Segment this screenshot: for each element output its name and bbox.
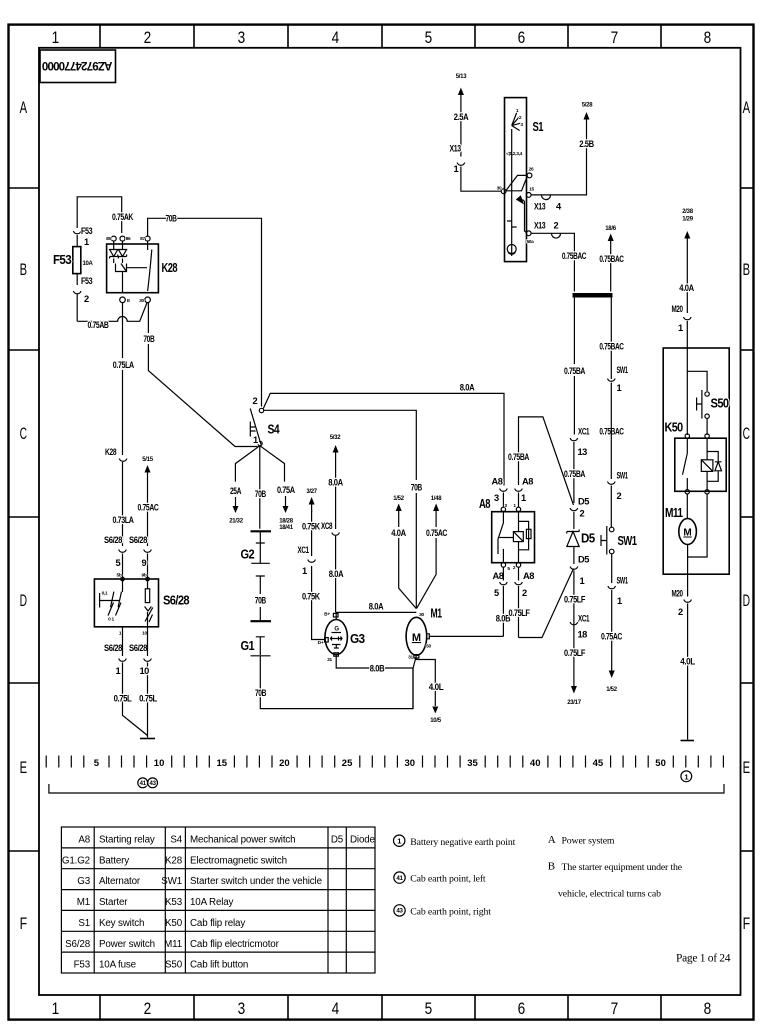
S1 pin 26 [527, 173, 532, 178]
svg-text:1: 1 [52, 28, 59, 47]
connector F53 pin2 arc [73, 274, 81, 322]
svg-text:0.75LF: 0.75LF [564, 595, 586, 605]
wire branch to S50 [687, 371, 707, 391]
K28 zener diode 2 [118, 241, 126, 259]
ground point 1 circle [681, 771, 692, 782]
svg-text:85: 85 [106, 236, 111, 242]
svg-text:Cab lift button: Cab lift button [190, 960, 248, 971]
svg-text:X13: X13 [534, 221, 545, 231]
svg-text:1: 1 [116, 666, 121, 676]
A8 bottom pins [501, 563, 505, 567]
power switch S6/28 box [94, 579, 158, 627]
svg-text:D5: D5 [578, 555, 589, 565]
svg-text:70B: 70B [165, 214, 177, 224]
svg-text:Diode: Diode [350, 835, 376, 846]
wire 8.0A G3 to M1 [336, 612, 416, 619]
svg-text:2: 2 [253, 396, 258, 406]
svg-text:31: 31 [327, 657, 332, 663]
svg-text:SW1: SW1 [617, 365, 628, 375]
svg-text:1: 1 [253, 435, 258, 445]
wire 70B from K28 pin30 down [148, 303, 257, 447]
svg-text:K53: K53 [165, 897, 183, 908]
svg-text:10/5: 10/5 [430, 718, 441, 724]
svg-text:2: 2 [617, 491, 622, 501]
svg-text:7: 7 [611, 999, 618, 1018]
svg-text:1/29: 1/29 [682, 217, 693, 223]
A8 coil bracket resistor [519, 521, 529, 549]
svg-text:0.75AC: 0.75AC [601, 632, 623, 642]
S4 V split to battery and arrows [235, 446, 284, 529]
K28 zener diode 1 [110, 241, 118, 259]
wire 4.0L to 10/5 [416, 659, 435, 707]
svg-text:0.75LF: 0.75LF [564, 648, 586, 658]
svg-text:4: 4 [332, 28, 339, 47]
svg-text:21/32: 21/32 [229, 519, 243, 525]
svg-text:A8: A8 [479, 497, 491, 511]
svg-text:5: 5 [494, 588, 499, 598]
top band cell dividers [100, 25, 661, 48]
svg-text:XC8: XC8 [321, 521, 332, 531]
S4 pin 1 [258, 441, 262, 445]
K28 coil [114, 259, 127, 293]
wire 0.75BA A8 pin1 up and to D5 [519, 417, 574, 505]
svg-text:vehicle, electrical turns cab: vehicle, electrical turns cab [558, 889, 661, 900]
fuse F53 [73, 247, 81, 274]
svg-text:50: 50 [426, 644, 431, 650]
svg-text:9: 9 [142, 558, 147, 568]
svg-text:2: 2 [84, 294, 89, 304]
svg-text:S6/28: S6/28 [129, 535, 147, 545]
S1 contact bridge [506, 175, 527, 190]
wire 70B from K28 pin87 to S4 [148, 218, 262, 406]
svg-text:8.0A: 8.0A [329, 569, 344, 579]
svg-text:F53: F53 [81, 226, 92, 236]
wire 0.75AB with hop [77, 303, 147, 321]
svg-text:C: C [743, 424, 750, 443]
svg-text:0,1: 0,1 [102, 591, 108, 597]
svg-text:50a: 50a [526, 239, 534, 245]
ruler ticks [46, 756, 723, 768]
S1 pin 30 [501, 189, 506, 194]
svg-text:18/6: 18/6 [605, 226, 616, 232]
wire 8.0B G3 to M1 bottom [336, 655, 413, 669]
svg-text:40: 40 [530, 758, 541, 769]
wire A8 pin2 to D5 pin1 [519, 569, 574, 638]
svg-text:70B: 70B [255, 688, 267, 698]
svg-text:23/17: 23/17 [567, 700, 581, 706]
svg-text:M20: M20 [672, 304, 683, 314]
svg-text:X13: X13 [450, 144, 461, 154]
svg-text:45: 45 [593, 758, 604, 769]
svg-text:◁1,2,3,4: ◁1,2,3,4 [505, 151, 523, 157]
K28 contact blade [148, 241, 152, 291]
M1 pin 50 [427, 634, 430, 639]
svg-text:31: 31 [408, 655, 413, 661]
svg-text:8: 8 [704, 28, 711, 47]
svg-text:S1: S1 [78, 918, 90, 929]
svg-text:0.75AK: 0.75AK [112, 212, 134, 222]
relay A8 box [492, 512, 535, 563]
svg-text:0.75AC: 0.75AC [138, 503, 160, 513]
A8 coil [518, 512, 520, 563]
thick bus bar [573, 293, 613, 298]
pin 87 [145, 236, 150, 241]
svg-text:0.75AB: 0.75AB [88, 320, 110, 330]
S4 pin 2 [259, 408, 263, 412]
svg-text:4.0L: 4.0L [680, 657, 695, 667]
svg-text:3: 3 [238, 28, 245, 47]
svg-text:SW1: SW1 [618, 534, 638, 548]
S1 wiper arrow to 50a [516, 195, 524, 204]
svg-text:Battery negative earth point: Battery negative earth point [410, 837, 515, 848]
svg-text:X13: X13 [534, 202, 545, 212]
svg-text:50: 50 [655, 758, 666, 769]
svg-text:F53: F53 [81, 276, 92, 286]
svg-text:2: 2 [144, 999, 151, 1018]
svg-text:1: 1 [580, 576, 585, 586]
pin 86 [120, 236, 125, 241]
svg-text:10: 10 [154, 758, 165, 769]
svg-text:0.75LA: 0.75LA [113, 360, 135, 370]
svg-text:3/27: 3/27 [306, 489, 317, 495]
svg-text:0.75A: 0.75A [277, 485, 295, 495]
svg-text:SW1: SW1 [617, 471, 628, 481]
svg-text:B: B [548, 861, 555, 873]
svg-text:15: 15 [529, 187, 534, 193]
svg-text:The starter equipment under th: The starter equipment under the [562, 862, 683, 873]
left band row dividers [9, 188, 40, 851]
svg-text:M1: M1 [431, 607, 443, 621]
svg-text:6: 6 [518, 999, 525, 1018]
S1 rotary fan [512, 110, 521, 131]
svg-text:0.75BA: 0.75BA [564, 366, 586, 376]
svg-text:1/52: 1/52 [606, 687, 617, 693]
svg-text:3: 3 [494, 493, 499, 503]
svg-text:S1: S1 [533, 120, 544, 134]
svg-text:8.0B: 8.0B [370, 664, 385, 674]
svg-text:4.0A: 4.0A [679, 283, 694, 293]
svg-text:D: D [20, 591, 27, 610]
svg-text:5: 5 [116, 558, 121, 568]
svg-text:F53: F53 [74, 960, 91, 971]
svg-text:1: 1 [84, 237, 89, 247]
svg-text:E: E [743, 758, 750, 777]
svg-text:Starting relay: Starting relay [99, 835, 155, 846]
svg-text:1: 1 [52, 999, 59, 1018]
svg-text:K28: K28 [162, 261, 178, 275]
svg-text:S6/28: S6/28 [65, 939, 91, 950]
diode D5 [567, 530, 579, 565]
S1 pin 15 [526, 193, 531, 198]
svg-text:13: 13 [578, 447, 588, 457]
svg-text:70B: 70B [143, 334, 155, 344]
wire S1 pin50a to 0.75BAC [531, 233, 574, 291]
svg-text:1: 1 [397, 837, 401, 846]
svg-text:M11: M11 [665, 506, 683, 520]
svg-text:2: 2 [580, 509, 585, 519]
svg-text:XC1: XC1 [578, 427, 589, 437]
wire M1 50 to A8 pin5 [429, 635, 503, 637]
svg-text:10A: 10A [82, 261, 93, 267]
svg-text:0.75BAC: 0.75BAC [599, 342, 624, 352]
bottom band numbers 1-8 [52, 999, 711, 1018]
svg-text:18/28: 18/28 [279, 519, 293, 525]
connector F53 pin1 arc [73, 231, 81, 234]
svg-text:70B: 70B [255, 596, 267, 606]
relay K50 inner box [675, 438, 726, 491]
K50 bottom pins [685, 490, 689, 494]
wire S1 pin15 to 2.5B [531, 119, 586, 195]
svg-text:AZ9724770000: AZ9724770000 [42, 59, 112, 71]
svg-text:5/15: 5/15 [142, 457, 153, 463]
svg-text:Alternator: Alternator [99, 876, 141, 887]
ground terminal bar left [140, 738, 155, 740]
svg-text:XC1: XC1 [298, 545, 309, 555]
svg-text:G1.G2: G1.G2 [62, 855, 90, 866]
note 1 battery negative earth point [394, 835, 405, 846]
svg-text:M: M [412, 632, 421, 644]
svg-text:A8: A8 [492, 477, 503, 487]
svg-text:2: 2 [144, 28, 151, 47]
svg-text:43: 43 [150, 781, 157, 787]
svg-text:G3: G3 [350, 632, 365, 646]
svg-text:30: 30 [419, 612, 424, 618]
K50 coil [706, 438, 708, 489]
svg-text:5: 5 [425, 28, 432, 47]
svg-text:20: 20 [279, 758, 290, 769]
svg-text:Power switch: Power switch [99, 939, 155, 950]
wire F53 top loop [77, 197, 122, 247]
svg-text:F: F [20, 914, 27, 933]
svg-text:Electromagnetic switch: Electromagnetic switch [190, 855, 287, 866]
svg-text:1: 1 [302, 566, 307, 576]
ground point 43 circle [148, 778, 158, 788]
svg-text:1/52: 1/52 [393, 496, 404, 502]
svg-text:S50: S50 [165, 960, 183, 971]
svg-text:7: 7 [611, 28, 618, 47]
svg-text:8.0A: 8.0A [460, 383, 475, 393]
svg-text:0.73LA: 0.73LA [113, 515, 135, 525]
arrow down 23/17 [573, 666, 575, 687]
svg-text:5b: 5b [117, 573, 122, 579]
svg-text:1: 1 [521, 493, 526, 503]
svg-text:G1: G1 [241, 639, 255, 653]
switch SW1 under vehicle [609, 527, 614, 532]
svg-text:6: 6 [518, 28, 525, 47]
svg-text:0.75K: 0.75K [302, 522, 320, 532]
wire 0.75BA down from bar [573, 298, 575, 435]
svg-text:Page 1 of 24: Page 1 of 24 [676, 953, 731, 965]
relay K28 box [107, 244, 159, 293]
svg-text:43: 43 [396, 908, 403, 915]
svg-text:M: M [683, 528, 691, 539]
note 43 cab earth point right [394, 905, 405, 916]
svg-text:Starter switch under the vehic: Starter switch under the vehicle [190, 876, 323, 887]
svg-text:8.0A: 8.0A [328, 478, 343, 488]
svg-text:A8: A8 [523, 571, 534, 581]
wire X13-1 to S1 pin30 [457, 95, 501, 192]
svg-text:87: 87 [140, 236, 145, 242]
svg-text:Cab earth point, left: Cab earth point, left [410, 874, 486, 885]
svg-text:41: 41 [396, 875, 403, 882]
svg-text:10A fuse: 10A fuse [99, 960, 137, 971]
svg-text:SW1: SW1 [617, 576, 628, 586]
svg-text:1: 1 [684, 772, 688, 781]
svg-text:Battery: Battery [99, 855, 129, 866]
svg-text:8.0A: 8.0A [369, 602, 384, 612]
bottom band cell dividers [100, 995, 661, 1020]
svg-text:G2: G2 [241, 548, 255, 562]
svg-text:5: 5 [425, 999, 432, 1018]
S1 antenna symbol [507, 245, 516, 254]
svg-text:Cab flip relay: Cab flip relay [190, 918, 245, 929]
svg-text:3: 3 [238, 999, 245, 1018]
svg-text:25A: 25A [230, 486, 242, 496]
K50 contact blade [683, 438, 688, 489]
right band row dividers [741, 188, 754, 851]
S6/28 heater symbol [147, 579, 149, 589]
svg-text:E: E [20, 758, 27, 777]
svg-text:Key switch: Key switch [99, 918, 144, 929]
svg-text:10: 10 [142, 631, 147, 637]
svg-text:25: 25 [342, 758, 353, 769]
svg-text:10: 10 [140, 666, 150, 676]
svg-text:0.75AC: 0.75AC [426, 528, 448, 538]
svg-text:S4: S4 [170, 835, 182, 846]
svg-text:A: A [20, 98, 28, 117]
svg-text:18: 18 [578, 630, 588, 640]
svg-text:1: 1 [678, 323, 683, 333]
svg-text:B: B [20, 260, 27, 279]
svg-text:Mechanical power switch: Mechanical power switch [190, 835, 295, 846]
svg-text:2/38: 2/38 [682, 209, 693, 215]
A8 contact blade [498, 512, 503, 554]
svg-text:A8: A8 [78, 835, 90, 846]
wire from S4 pin2 to M1 (70B) [264, 410, 417, 608]
svg-text:S50: S50 [711, 397, 730, 411]
svg-text:30: 30 [139, 298, 144, 304]
S1 inner stem [511, 129, 513, 219]
svg-text:A8: A8 [522, 477, 533, 487]
svg-text:1/48: 1/48 [431, 496, 442, 502]
ground point 41 circle [138, 778, 148, 788]
ruler numbers [94, 758, 666, 769]
svg-text:5/32: 5/32 [330, 435, 341, 441]
right band letters A-F [743, 98, 751, 933]
svg-text:0.75BA: 0.75BA [564, 469, 586, 479]
svg-text:K50: K50 [665, 421, 684, 435]
svg-text:D5: D5 [578, 497, 589, 507]
svg-text:1: 1 [617, 596, 622, 606]
S1 pin 50a [526, 231, 531, 236]
svg-text:D5: D5 [581, 532, 595, 546]
K50 diode [707, 452, 718, 482]
svg-text:B: B [743, 260, 750, 279]
pin E bottom [120, 297, 126, 303]
svg-text:F: F [743, 914, 750, 933]
svg-text:5/13: 5/13 [456, 74, 467, 80]
svg-text:8: 8 [704, 999, 711, 1018]
svg-text:XC1: XC1 [578, 614, 589, 624]
svg-text:0 1: 0 1 [108, 617, 114, 623]
svg-text:26: 26 [529, 167, 534, 173]
svg-text:70B: 70B [411, 483, 423, 493]
svg-text:Starter: Starter [99, 897, 128, 908]
alternator G3 [325, 620, 347, 655]
svg-text:1: 1 [454, 164, 459, 174]
svg-text:30: 30 [405, 758, 416, 769]
svg-text:4: 4 [332, 999, 339, 1018]
svg-text:K28: K28 [165, 855, 183, 866]
svg-text:A: A [743, 98, 751, 117]
svg-text:1: 1 [617, 383, 622, 393]
svg-text:Cab earth point, right: Cab earth point, right [410, 907, 491, 918]
pin 85 [111, 236, 116, 241]
ground terminal bar [681, 740, 695, 742]
svg-text:D+: D+ [318, 640, 324, 646]
svg-text:18/41: 18/41 [279, 525, 293, 531]
starter M1 [406, 617, 427, 655]
svg-text:0.75BAC: 0.75BAC [599, 254, 624, 264]
svg-text:2.5B: 2.5B [579, 139, 594, 149]
A8 pin5 stub [502, 549, 504, 563]
svg-text:K50: K50 [165, 918, 183, 929]
wire M20 pin2 down [687, 557, 689, 597]
svg-text:M20: M20 [672, 589, 683, 599]
svg-text:D: D [743, 591, 750, 610]
battery terminal plate [251, 530, 272, 532]
svg-text:9b: 9b [142, 573, 147, 579]
svg-text:S6/28: S6/28 [104, 643, 122, 653]
svg-text:Power system: Power system [562, 836, 615, 847]
svg-text:41: 41 [140, 781, 147, 787]
svg-text:S6/28: S6/28 [129, 643, 147, 653]
svg-text:S4: S4 [268, 423, 280, 437]
svg-text:70B: 70B [255, 489, 267, 499]
wire D+ 0.75K to 3/27 [312, 566, 325, 640]
wire K28 pinE down to S6/28 [122, 303, 124, 455]
S4 actuator [250, 422, 255, 437]
svg-text:0.75L: 0.75L [114, 694, 132, 704]
svg-text:M1: M1 [77, 897, 90, 908]
svg-text:S6/28: S6/28 [104, 535, 122, 545]
title box AZ9724770000 (rotated 180) [40, 50, 116, 83]
svg-text:G3: G3 [77, 876, 90, 887]
svg-text:G: G [334, 627, 339, 633]
svg-text:10A Relay: 10A Relay [190, 897, 234, 908]
svg-text:F53: F53 [53, 253, 72, 267]
svg-text:A: A [548, 834, 556, 846]
svg-text:K28: K28 [105, 447, 116, 457]
pin 30 bottom [145, 297, 151, 303]
svg-text:2: 2 [522, 588, 527, 598]
svg-text:15: 15 [217, 758, 228, 769]
note 41 cab earth point left [394, 872, 405, 883]
svg-text:0.75L: 0.75L [139, 694, 157, 704]
arrow down 1/52 [611, 668, 613, 671]
svg-text:0.75BAC: 0.75BAC [562, 251, 587, 261]
cab lift button S50 [705, 392, 709, 396]
svg-text:SW1: SW1 [161, 876, 182, 887]
svg-text:0.75BA: 0.75BA [508, 452, 530, 462]
svg-text:2.5A: 2.5A [454, 112, 469, 122]
svg-text:0.75LF: 0.75LF [509, 608, 531, 618]
svg-text:Cab flip electricmotor: Cab flip electricmotor [190, 939, 280, 950]
svg-text:4.0L: 4.0L [429, 682, 444, 692]
S4 blade [250, 409, 261, 445]
top band numbers 1-8 [52, 28, 711, 47]
svg-text:S6/28: S6/28 [163, 594, 190, 608]
